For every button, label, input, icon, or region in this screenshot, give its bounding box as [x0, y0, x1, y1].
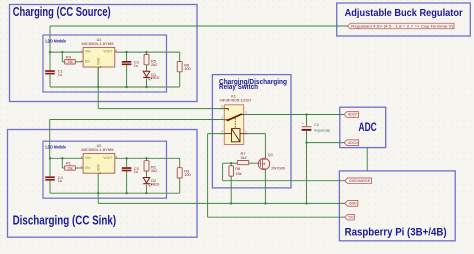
svg-text:+: +: [302, 122, 304, 126]
svg-text:2k2: 2k2: [241, 155, 247, 160]
svg-text:15k: 15k: [67, 166, 73, 170]
svg-text:VIN: VIN: [85, 50, 91, 54]
svg-text:HF3F/005-1ZST: HF3F/005-1ZST: [220, 98, 253, 103]
svg-text:1u: 1u: [58, 72, 62, 77]
svg-text:GND: GND: [96, 57, 100, 65]
svg-text:Relay Switch: Relay Switch: [219, 84, 258, 91]
svg-text:2N7000: 2N7000: [271, 166, 285, 171]
svg-text:VIN: VIN: [85, 156, 91, 160]
svg-text:EN: EN: [85, 60, 90, 64]
svg-text:EN: EN: [85, 166, 90, 170]
svg-text:15k: 15k: [67, 60, 73, 64]
svg-text:Q1: Q1: [268, 152, 273, 157]
svg-text:GND: GND: [96, 163, 100, 171]
svg-text:RED: RED: [151, 75, 159, 80]
svg-text:Adjustable Buck Regulator: Adjustable Buck Regulator: [345, 8, 463, 19]
svg-text:2k2: 2k2: [151, 168, 157, 173]
svg-text:100: 100: [184, 66, 191, 71]
svg-text:ADCN: ADCN: [348, 141, 358, 145]
svg-text:C2: C2: [314, 123, 319, 127]
svg-text:LDO Module: LDO Module: [46, 145, 67, 150]
svg-text:LDO Module: LDO Module: [46, 38, 67, 43]
svg-text:Supercap: Supercap: [314, 128, 330, 132]
svg-text:VOUT: VOUT: [103, 50, 112, 54]
svg-text:VOUT: VOUT: [103, 156, 112, 160]
svg-text:ADC: ADC: [359, 121, 378, 134]
svg-text:GND: GND: [349, 202, 358, 206]
svg-text:MIC5504-1.8YM5: MIC5504-1.8YM5: [82, 148, 114, 152]
svg-text:Raspberry Pi (3B+/4B): Raspberry Pi (3B+/4B): [345, 227, 447, 239]
svg-text:1u: 1u: [58, 178, 62, 183]
svg-text:RED: RED: [151, 181, 159, 186]
svg-text:Discharging (CC Sink): Discharging (CC Sink): [13, 213, 117, 228]
svg-text:R4: R4: [66, 54, 72, 59]
svg-text:ADCP: ADCP: [348, 113, 358, 117]
svg-text:1u: 1u: [134, 63, 138, 68]
svg-text:Regulated 4.5V (4.5 - 1.8 = 2.: Regulated 4.5V (4.5 - 1.8 = 2.7 => Cap T…: [351, 24, 454, 28]
svg-text:1u: 1u: [134, 169, 138, 174]
svg-text:Charging (CC Source): Charging (CC Source): [13, 4, 111, 19]
svg-text:R1: R1: [66, 161, 71, 166]
svg-text:100: 100: [184, 172, 191, 177]
svg-text:MIC5504-1.8YM5: MIC5504-1.8YM5: [82, 42, 114, 46]
svg-text:2k2: 2k2: [151, 62, 157, 67]
svg-text:DISCHARGE: DISCHARGE: [349, 179, 371, 183]
svg-text:15k: 15k: [235, 171, 241, 176]
